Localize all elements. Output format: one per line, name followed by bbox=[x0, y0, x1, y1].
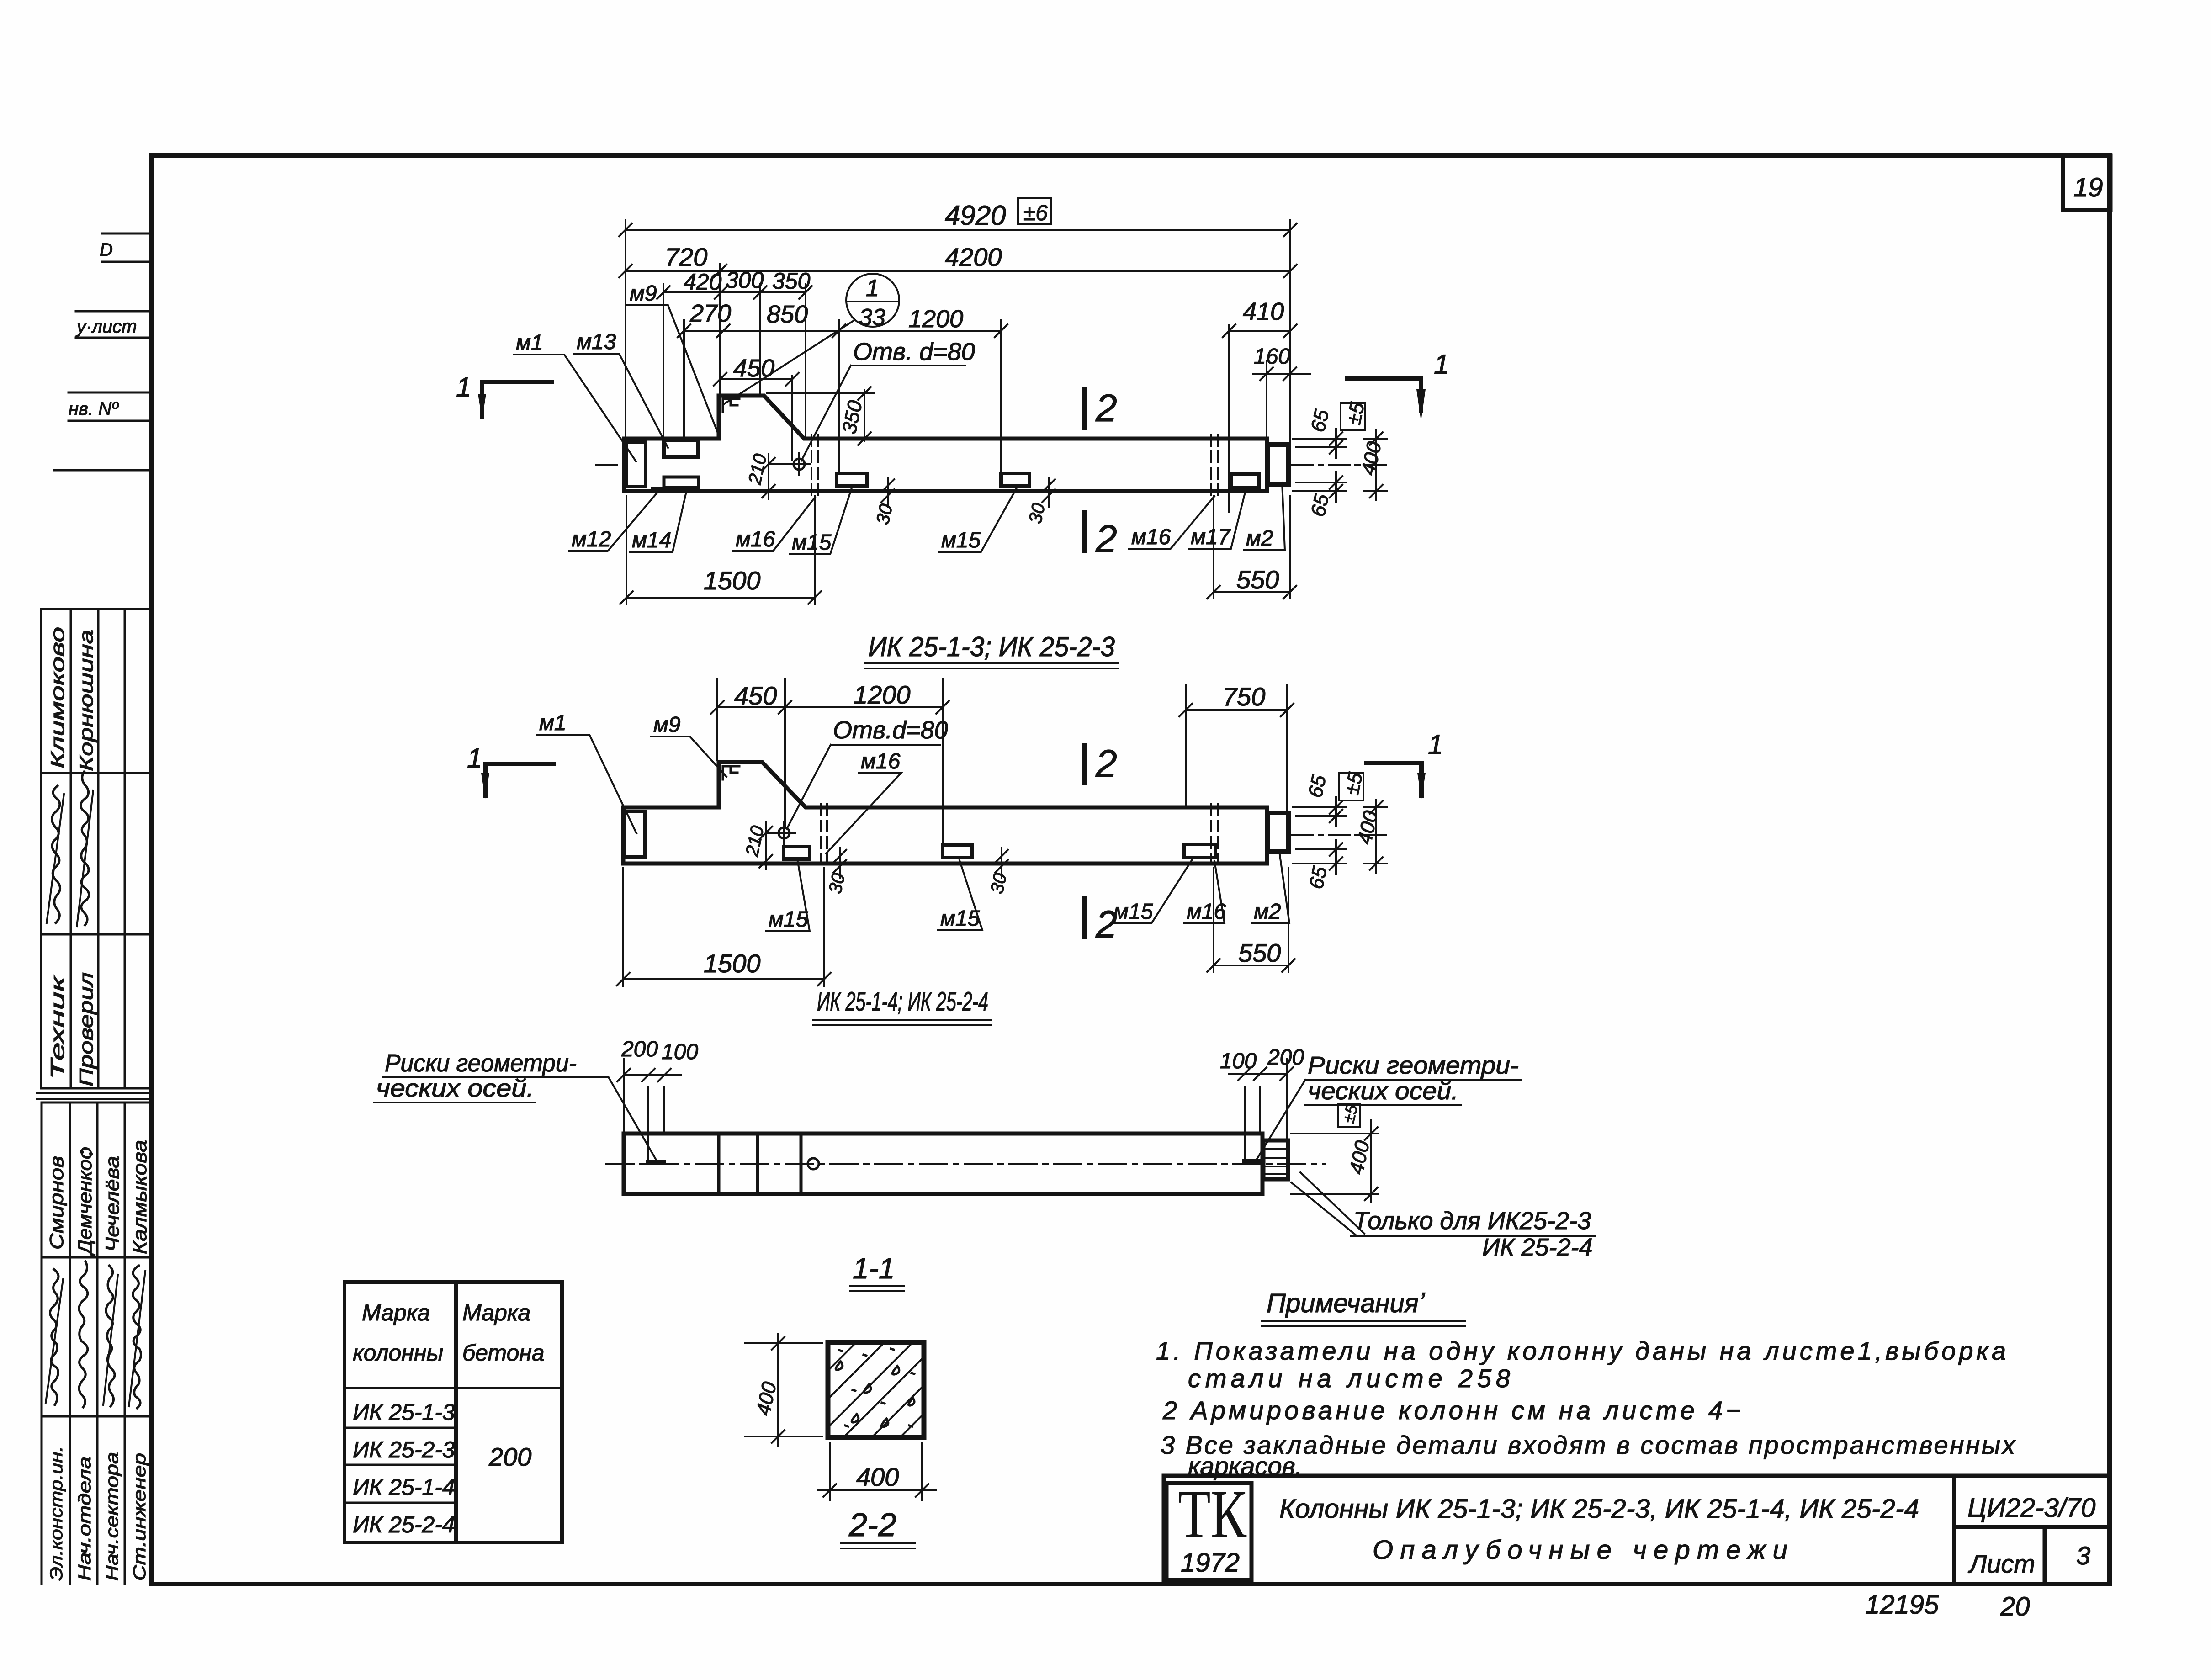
dim 30 mid first bbox=[833, 848, 846, 878]
svg-text:Лист: Лист bbox=[1968, 1549, 2035, 1578]
plate M15 first bbox=[837, 473, 867, 486]
svg-text:200: 200 bbox=[1267, 1045, 1304, 1070]
svg-text:1200: 1200 bbox=[908, 305, 963, 333]
svg-text:м2: м2 bbox=[1246, 526, 1273, 551]
svg-text:1500: 1500 bbox=[704, 949, 761, 978]
svg-text:30: 30 bbox=[987, 871, 1011, 896]
svg-text:2: 2 bbox=[1095, 742, 1117, 785]
svg-text:400: 400 bbox=[856, 1463, 899, 1491]
dim 750 mid bbox=[1179, 704, 1294, 716]
svg-text:100: 100 bbox=[1220, 1049, 1257, 1073]
svg-text:30: 30 bbox=[1025, 501, 1049, 525]
svg-text:ТК: ТК bbox=[1178, 1476, 1247, 1552]
svg-text:Корнюшина: Корнюшина bbox=[75, 630, 97, 771]
svg-text:1: 1 bbox=[467, 743, 482, 774]
weld hook detail bbox=[723, 399, 739, 412]
svg-text:бетона: бетона bbox=[462, 1340, 545, 1366]
svg-text:2: 2 bbox=[1095, 387, 1117, 429]
svg-text:720: 720 bbox=[665, 243, 707, 271]
svg-text:м16: м16 bbox=[1187, 900, 1226, 924]
svg-text:м12: м12 bbox=[572, 527, 611, 551]
plan center axis bbox=[606, 1163, 1325, 1165]
section mark 1 left bbox=[482, 382, 552, 417]
svg-text:300: 300 bbox=[726, 267, 764, 293]
svg-text:м15: м15 bbox=[940, 906, 980, 931]
svg-text:3: 3 bbox=[2076, 1541, 2090, 1570]
svg-text:Эл.констр.ин.: Эл.констр.ин. bbox=[47, 1446, 66, 1581]
svg-text:м15: м15 bbox=[792, 530, 832, 555]
svg-text:Примечанияʼ: Примечанияʼ bbox=[1267, 1288, 1426, 1318]
svg-text:м9: м9 bbox=[630, 281, 657, 306]
svg-text:2-2: 2-2 bbox=[848, 1507, 896, 1543]
svg-text:4200: 4200 bbox=[945, 243, 1002, 271]
svg-text:450: 450 bbox=[733, 355, 774, 382]
svg-text:1: 1 bbox=[1434, 349, 1449, 380]
bottom dim 1500 mid bbox=[617, 868, 831, 986]
signature squiggles upper bbox=[47, 772, 93, 927]
svg-text:у·лист: у·лист bbox=[75, 317, 137, 337]
extension lines top bbox=[626, 220, 1290, 512]
svg-text:Марка: Марка bbox=[462, 1300, 530, 1325]
svg-text:450: 450 bbox=[734, 681, 777, 710]
svg-text:м15: м15 bbox=[941, 528, 981, 552]
svg-text:2: 2 bbox=[1095, 517, 1117, 560]
svg-text:ИК 25-1-4; ИК 25-2-4: ИК 25-1-4; ИК 25-2-4 bbox=[817, 987, 988, 1017]
svg-text:ческих осей.: ческих осей. bbox=[376, 1075, 534, 1102]
TK logo box bbox=[1166, 1483, 1251, 1580]
concrete hatch bbox=[828, 1342, 924, 1437]
plan joints bbox=[719, 1134, 801, 1194]
column body IK25-1-4 outline bbox=[623, 762, 1267, 864]
plate M1 bbox=[626, 442, 646, 487]
svg-text:200: 200 bbox=[621, 1037, 658, 1061]
left margin field rule 1 bbox=[54, 233, 151, 470]
svg-text:4920: 4920 bbox=[945, 200, 1006, 231]
svg-text:Климоково: Климоково bbox=[47, 627, 68, 768]
right axis riska mark bbox=[1245, 1159, 1260, 1163]
dim 450 1200 mid bbox=[711, 701, 949, 714]
svg-text:33: 33 bbox=[859, 304, 885, 331]
dim 30 second bbox=[1042, 478, 1055, 507]
weld hook detail mid bbox=[723, 766, 739, 779]
mark table header text bbox=[353, 1300, 545, 1537]
svg-text:1: 1 bbox=[456, 372, 471, 403]
svg-text:1: 1 bbox=[1428, 729, 1443, 760]
plate M16 mid right bbox=[1184, 844, 1215, 858]
svg-text:1500: 1500 bbox=[704, 566, 761, 595]
svg-text:ИК 25-1-3; ИК 25-2-3: ИК 25-1-3; ИК 25-2-3 bbox=[868, 631, 1115, 662]
svg-text:850: 850 bbox=[767, 301, 808, 328]
dim 420 300 350 bbox=[657, 286, 812, 299]
svg-text:ИК 25-2-4: ИК 25-2-4 bbox=[1482, 1234, 1593, 1261]
section mark 2 upper bbox=[1082, 389, 1087, 427]
hidden plate dashed mid right bbox=[1211, 804, 1218, 867]
svg-text:Чечелёва: Чечелёва bbox=[101, 1156, 123, 1252]
svg-text:550: 550 bbox=[1238, 938, 1281, 967]
svg-text:м2: м2 bbox=[1254, 900, 1281, 924]
svg-text:30: 30 bbox=[873, 502, 896, 526]
svg-text:12195: 12195 bbox=[1865, 1590, 1939, 1620]
svg-text:1. Показатели на одну колон: 1. Показатели на одну колонну даны на ли… bbox=[1156, 1336, 2006, 1365]
svg-text:±6: ±6 bbox=[1023, 201, 1048, 225]
svg-text:Отв.d=80: Отв.d=80 bbox=[833, 716, 948, 744]
svg-text:м14: м14 bbox=[632, 528, 671, 552]
plate M15 mid second bbox=[943, 845, 972, 858]
svg-text:270: 270 bbox=[689, 300, 731, 327]
section 2-2 left dim 400 bbox=[745, 1334, 822, 1446]
hidden plate M16 right dashed bbox=[1211, 435, 1218, 496]
plate M12 strip bbox=[653, 487, 694, 491]
plate M15 second bbox=[1001, 473, 1029, 486]
svg-text:м17: м17 bbox=[1191, 525, 1231, 549]
plan view body bbox=[624, 1134, 1262, 1194]
svg-text:ИК 25-2-3: ИК 25-2-3 bbox=[353, 1437, 455, 1463]
right side dims mid 65/400/65 bbox=[1293, 797, 1387, 874]
dim 30 mid second bbox=[995, 848, 1008, 878]
svg-text:м16: м16 bbox=[861, 749, 901, 774]
stamp double separator bbox=[37, 1093, 151, 1099]
svg-text:м15: м15 bbox=[1113, 900, 1153, 924]
plate M13 bbox=[664, 440, 698, 457]
plan right dims 100 200 bbox=[1229, 1059, 1293, 1158]
dim 350 vertical bbox=[767, 387, 874, 445]
dim 4920 bbox=[619, 223, 1297, 236]
svg-text:Демченкоѻ: Демченкоѻ bbox=[74, 1147, 95, 1256]
end cap M2 bbox=[1268, 445, 1288, 485]
svg-text:м1: м1 bbox=[539, 711, 567, 735]
svg-text:19: 19 bbox=[2073, 173, 2103, 202]
dim 160 bbox=[1253, 367, 1310, 380]
section 2-2 square bbox=[828, 1342, 924, 1437]
svg-text:420: 420 bbox=[684, 269, 722, 295]
mark table bbox=[345, 1282, 562, 1542]
plate M1 mid bbox=[624, 811, 645, 857]
svg-text:м13: м13 bbox=[577, 330, 616, 354]
svg-text:стали на листе 258: стали на листе 258 bbox=[1188, 1364, 1510, 1393]
svg-text:Нач.сектора: Нач.сектора bbox=[103, 1452, 122, 1581]
svg-text:м15: м15 bbox=[769, 907, 808, 932]
svg-text:160: 160 bbox=[1254, 344, 1290, 369]
plate M17 bbox=[1231, 474, 1259, 488]
hidden plate M16 mid dashed bbox=[821, 804, 827, 867]
svg-text:Нач.отдела: Нач.отдела bbox=[75, 1457, 95, 1581]
bottom dim 1500 bbox=[620, 496, 821, 604]
section 2-2 bottom dim 400 bbox=[818, 1443, 936, 1500]
svg-text:100: 100 bbox=[662, 1040, 698, 1064]
callout leader to step bbox=[724, 321, 854, 404]
svg-text:ЦИ22-3/70: ЦИ22-3/70 bbox=[1967, 1493, 2095, 1523]
svg-text:м16: м16 bbox=[736, 527, 775, 551]
sheet number box 19 bbox=[2063, 155, 2110, 210]
section mark 1 right bbox=[1347, 379, 1421, 411]
svg-text:Риски геометри-: Риски геометри- bbox=[385, 1049, 577, 1077]
dim 30 first bbox=[881, 478, 894, 507]
plan hole bbox=[808, 1158, 819, 1169]
svg-text:м16: м16 bbox=[1131, 525, 1171, 549]
section mark 2 lower bbox=[1082, 513, 1087, 551]
svg-text:20: 20 bbox=[2000, 1592, 2030, 1622]
plan tolerance box pm5 bbox=[1338, 1104, 1360, 1127]
svg-text:550: 550 bbox=[1236, 565, 1279, 594]
svg-text:Ст.инженер: Ст.инженер bbox=[130, 1453, 149, 1581]
stamp lower texts (rotated) bbox=[46, 1140, 150, 1581]
extension lines mid bbox=[717, 679, 1287, 843]
svg-text:Только для ИК25-2-3: Только для ИК25-2-3 bbox=[1353, 1207, 1591, 1235]
plate M15 mid first bbox=[784, 847, 810, 859]
svg-text:Колонны ИК 25-1-3; ИК 25-2-3,: Колонны ИК 25-1-3; ИК 25-2-3, ИК 25-1-4,… bbox=[1279, 1494, 1919, 1524]
svg-text:ИК 25-2-4: ИК 25-2-4 bbox=[353, 1512, 455, 1537]
signature squiggles lower bbox=[46, 1261, 145, 1408]
svg-text:Проверил: Проверил bbox=[75, 972, 97, 1086]
svg-text:750: 750 bbox=[1223, 682, 1265, 711]
svg-text:ческих осей.: ческих осей. bbox=[1308, 1077, 1458, 1105]
svg-text:1-1: 1-1 bbox=[853, 1252, 895, 1285]
stamp upper texts (rotated) bbox=[47, 627, 97, 1086]
svg-text:200: 200 bbox=[488, 1442, 531, 1471]
signature stamp upper table bbox=[41, 609, 151, 1088]
detail callout circle 1/33 bbox=[846, 274, 899, 327]
hole Otv d80 bbox=[794, 459, 805, 470]
svg-text:ИК 25-1-3: ИК 25-1-3 bbox=[353, 1399, 455, 1425]
svg-text:Отв. d=80: Отв. d=80 bbox=[853, 338, 975, 366]
hidden plate M16 dashed bbox=[811, 435, 818, 496]
svg-text:Калмыкова: Калмыкова bbox=[129, 1140, 150, 1254]
svg-text:350: 350 bbox=[772, 268, 811, 294]
plan right dim 400 bbox=[1291, 1120, 1378, 1202]
svg-text:м9: м9 bbox=[653, 713, 681, 737]
dim 720 / 4200 bbox=[619, 265, 1297, 277]
left margin field labels bbox=[69, 240, 137, 419]
dim 450 bbox=[714, 373, 799, 386]
section mark 1 right mid bbox=[1366, 763, 1421, 796]
svg-text:D: D bbox=[100, 240, 113, 260]
center axis line bbox=[596, 464, 1389, 466]
svg-text:Риски геометри-: Риски геометри- bbox=[1308, 1052, 1519, 1079]
center axis mid bbox=[1292, 834, 1389, 836]
svg-text:410: 410 bbox=[1243, 298, 1284, 325]
svg-text:30: 30 bbox=[825, 871, 849, 896]
dim 210 vertical bbox=[762, 454, 794, 499]
svg-text:Техник: Техник bbox=[47, 975, 68, 1079]
right side dims 65/400/65 bbox=[1293, 429, 1387, 502]
svg-text:1972: 1972 bbox=[1181, 1548, 1240, 1578]
dim 210 mid bbox=[759, 822, 778, 869]
plan left dims 200 100 bbox=[617, 1059, 681, 1160]
svg-text:ИК 25-1-4: ИК 25-1-4 bbox=[353, 1474, 455, 1500]
svg-text:колонны: колонны bbox=[353, 1340, 443, 1366]
tolerance box pm6 bbox=[1018, 198, 1051, 224]
svg-text:1: 1 bbox=[866, 275, 879, 302]
end cap M2 mid bbox=[1268, 813, 1288, 852]
svg-text:2: 2 bbox=[1095, 903, 1117, 946]
svg-text:м1: м1 bbox=[516, 331, 543, 355]
hole Otv d80 mid bbox=[779, 827, 790, 838]
section mark 2 upper mid bbox=[1082, 746, 1087, 782]
svg-text:Марка: Марка bbox=[362, 1300, 430, 1325]
bottom dim 550 bbox=[1207, 496, 1296, 599]
plate M14 bbox=[664, 477, 699, 488]
column body IK25-1-3 outline bbox=[624, 396, 1267, 491]
svg-text:Смирнов: Смирнов bbox=[46, 1156, 67, 1250]
svg-text:нв. Nº: нв. Nº bbox=[69, 399, 119, 419]
left axis riska mark bbox=[648, 1160, 663, 1165]
bottom dim 550 mid bbox=[1207, 868, 1295, 972]
section mark 1 left mid bbox=[485, 764, 554, 796]
dim 270 850 1200 bbox=[678, 324, 1007, 337]
signature stamp lower table bbox=[42, 1102, 151, 1584]
plan end cap hatched bbox=[1263, 1140, 1288, 1179]
frame border bbox=[151, 155, 2110, 1584]
svg-text:1200: 1200 bbox=[854, 680, 911, 709]
title block outline bbox=[1164, 1476, 2107, 1584]
section mark 2 lower mid bbox=[1082, 899, 1087, 937]
dim 410 bbox=[1223, 324, 1297, 337]
